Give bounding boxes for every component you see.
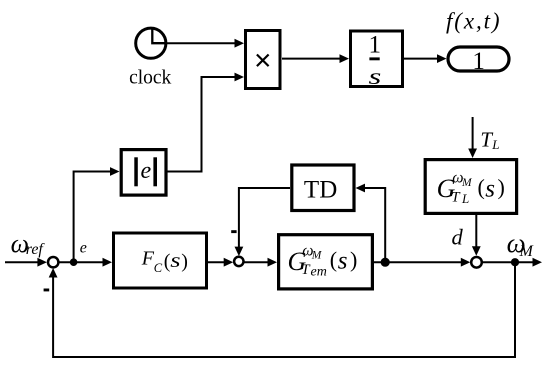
block integrator 1/s [351, 31, 403, 87]
label omega_M [507, 228, 535, 260]
wire GTL down to S3 [475, 214, 477, 247]
svg-text:L: L [461, 191, 469, 206]
minus sign at S1 [44, 289, 50, 292]
svg-text:1: 1 [369, 32, 382, 59]
input arrow T_L [472, 117, 474, 149]
wire S3 to output (through node out) [483, 261, 533, 263]
node M (junction dot) [381, 258, 390, 267]
wire abs to product (second input) [168, 77, 236, 172]
svg-text:TD: TD [304, 176, 337, 203]
block abs |e| [121, 150, 166, 196]
svg-text:s: s [338, 247, 348, 274]
integrator label 1/s [369, 32, 382, 90]
svg-text:): ) [350, 247, 357, 272]
svg-text:M: M [461, 177, 473, 189]
svg-text:): ) [498, 175, 505, 200]
wire clock to product [165, 42, 235, 44]
wire TD out, down into S2 [239, 188, 290, 247]
product x symbol [257, 55, 269, 67]
svg-text:s: s [369, 64, 382, 89]
output oval 1 [448, 47, 509, 71]
node out (junction dot) [511, 258, 519, 266]
minus sign at S2 [231, 230, 236, 233]
svg-text:F: F [141, 248, 155, 270]
svg-text:M: M [519, 243, 535, 260]
svg-text:(: ( [330, 247, 337, 272]
wire node e up to abs input [74, 172, 111, 263]
block product (x) [246, 31, 281, 89]
svg-text:L: L [491, 137, 499, 152]
svg-text:ref: ref [26, 241, 46, 258]
svg-text:s: s [170, 250, 181, 272]
feedback wire bottom [53, 262, 515, 357]
label Fc(s) [141, 248, 188, 276]
label G_TL^wM (s) [437, 170, 505, 207]
svg-text:M: M [311, 250, 323, 262]
block Gtem [279, 235, 373, 289]
abs bars and e [134, 157, 157, 186]
svg-text:f(x,t): f(x,t) [446, 9, 501, 34]
label T_L [480, 127, 499, 152]
label G_Tem^wM (s) [288, 242, 358, 279]
wire node M up to TD input [365, 188, 386, 262]
clock source icon [136, 28, 166, 58]
svg-text:): ) [181, 250, 188, 272]
summing junction S3 [471, 257, 482, 268]
svg-text:clock: clock [129, 68, 171, 89]
wire integrator to output oval [404, 58, 438, 60]
wire S2 to Gtem [244, 261, 268, 263]
block GTL [425, 160, 516, 214]
svg-text:(: ( [478, 175, 485, 200]
block TD [292, 165, 354, 211]
block Fc(s) [114, 233, 207, 288]
label omega_ref [11, 229, 46, 258]
summing junction S2 [234, 257, 243, 266]
svg-text:1: 1 [472, 48, 485, 75]
wire S1 to Fc [59, 261, 103, 263]
svg-text:d: d [452, 224, 464, 249]
svg-text:C: C [154, 261, 163, 275]
node e (junction dot) [70, 258, 78, 266]
svg-text:e: e [141, 158, 152, 184]
svg-text:em: em [311, 265, 327, 280]
input wire omega_ref [5, 261, 38, 263]
summing junction S1 [48, 257, 58, 267]
wire Gtem out to S3 (through node M) [373, 261, 462, 263]
wire product to integrator [282, 58, 340, 60]
wire Fc to S2 [208, 261, 225, 263]
svg-text:s: s [485, 175, 495, 202]
svg-text:e: e [80, 240, 87, 257]
